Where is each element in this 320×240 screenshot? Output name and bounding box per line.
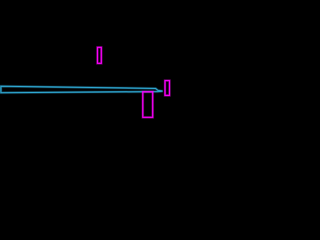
- magenta rectangle middle: [143, 92, 153, 118]
- magenta rectangle right: [165, 81, 170, 96]
- cyan blade outline: [1, 86, 163, 92]
- magenta rectangle top: [97, 47, 101, 63]
